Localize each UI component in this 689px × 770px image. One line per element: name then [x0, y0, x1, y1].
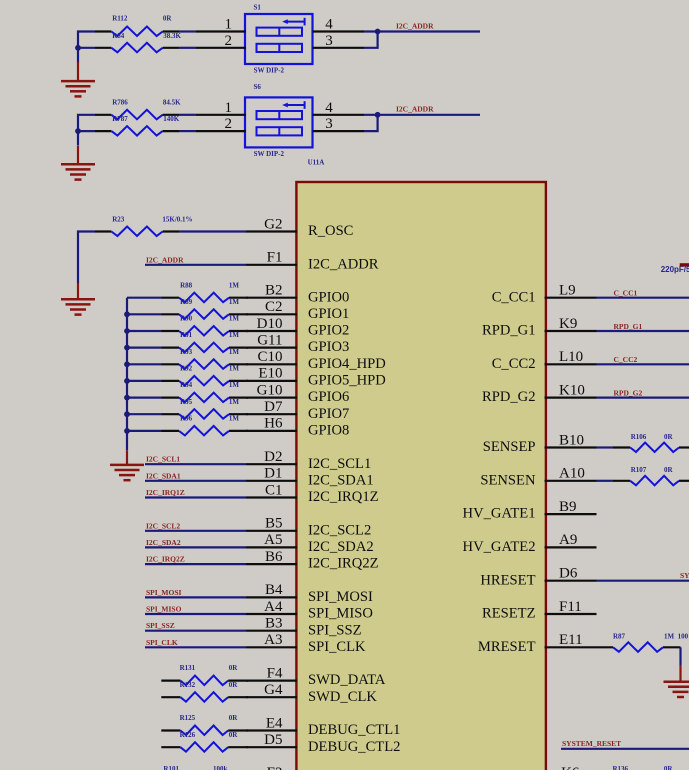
resistor R88 1M [127, 293, 248, 303]
svg-text:R126: R126 [180, 731, 196, 739]
svg-text:E10: E10 [258, 366, 282, 382]
label S1 ref [254, 4, 262, 12]
label R92 value 1M [229, 365, 240, 373]
svg-text:SPI_CLK: SPI_CLK [308, 639, 366, 655]
switch S6 SW DIP-2 [195, 97, 364, 147]
wire net I2C_SDA2 [145, 546, 246, 548]
wire [180, 47, 196, 49]
svg-text:0R: 0R [229, 731, 239, 739]
svg-text:R89: R89 [180, 298, 193, 306]
label R131 ref [180, 664, 196, 672]
label R125 ref [180, 714, 196, 722]
U11A pin A4 SPI_MISO [246, 599, 373, 622]
label R84 value 38.3K [163, 32, 181, 40]
wire S6 row2 left [78, 130, 95, 132]
svg-text:D5: D5 [264, 732, 282, 748]
wire net SPI_MISO [145, 613, 246, 615]
net label C_CC1 [614, 289, 638, 298]
svg-text:D2: D2 [264, 449, 282, 465]
wire net C_CC1 [597, 297, 689, 299]
net label RPD_G2 [614, 388, 643, 397]
svg-text:GPIO4_HPD: GPIO4_HPD [308, 356, 386, 372]
svg-text:GPIO6: GPIO6 [308, 389, 349, 405]
wire S1 row2 left [78, 47, 95, 49]
svg-text:I2C_IRQ2Z: I2C_IRQ2Z [146, 555, 185, 564]
svg-text:R23: R23 [112, 216, 125, 224]
svg-text:HV_GATE2: HV_GATE2 [463, 539, 536, 555]
label R126 ref [180, 731, 196, 739]
wire net I2C_SDA1 [145, 480, 246, 482]
svg-text:B5: B5 [265, 516, 283, 532]
junction [375, 29, 381, 35]
switch S1 SW DIP-2 [195, 14, 364, 64]
U11A pin F11 RESETZ [482, 599, 597, 622]
U11A pin F2 (partial) [267, 765, 283, 770]
label R106 ref [631, 433, 647, 441]
svg-text:RPD_G1: RPD_G1 [614, 322, 643, 331]
label 100 (partial) [678, 632, 689, 640]
svg-text:SENSEP: SENSEP [483, 439, 536, 455]
svg-text:1M: 1M [229, 381, 240, 389]
net label I2C_SCL2 [146, 521, 180, 530]
svg-text:R95: R95 [180, 398, 193, 406]
wire [597, 480, 613, 482]
resistor R95 1M [127, 409, 248, 419]
svg-text:R787: R787 [112, 115, 128, 123]
svg-text:S1: S1 [254, 4, 262, 12]
net label I2C_ADDR [396, 21, 434, 30]
svg-text:I2C_SDA1: I2C_SDA1 [146, 471, 181, 480]
svg-text:B6: B6 [265, 549, 283, 565]
svg-text:D1: D1 [264, 466, 282, 482]
resistor R131 0R [161, 676, 248, 686]
wire [597, 446, 613, 448]
svg-text:SW DIP-2: SW DIP-2 [254, 66, 285, 74]
wire net RPD_G2 [597, 397, 689, 399]
svg-text:D7: D7 [264, 399, 283, 415]
svg-text:R131: R131 [180, 664, 196, 672]
label R90 value 1M [229, 315, 240, 323]
U11A pin D2 I2C_SCL1 [246, 449, 371, 472]
wire net I2C_ADDR [364, 30, 480, 32]
svg-text:C1: C1 [265, 482, 283, 498]
svg-text:SPI_SSZ: SPI_SSZ [308, 622, 362, 638]
label R93 ref [180, 348, 193, 356]
label R787 value 140K [163, 115, 180, 123]
svg-text:HV_GATE1: HV_GATE1 [463, 506, 536, 522]
ground [61, 146, 95, 180]
label R94 ref [180, 381, 193, 389]
resistor R92 1M [127, 376, 248, 386]
svg-text:C_CC2: C_CC2 [614, 355, 638, 364]
U11A pin G11 GPIO3 [246, 332, 349, 355]
svg-text:G2: G2 [264, 216, 282, 232]
svg-text:84.5K: 84.5K [163, 99, 181, 107]
wire [180, 30, 196, 32]
svg-text:0R: 0R [229, 681, 239, 689]
U11A pin L9 C_CC1 [492, 283, 597, 306]
svg-text:1M: 1M [229, 298, 240, 306]
U11A pin D10 GPIO2 [246, 316, 349, 339]
label R107 value 0R [664, 466, 674, 474]
label R126 value [229, 731, 239, 739]
label R88 value 1M [229, 281, 240, 289]
wire [679, 647, 681, 665]
svg-text:R94: R94 [180, 381, 193, 389]
svg-text:HRESET: HRESET [480, 572, 535, 588]
svg-text:SYSTEM_RESET: SYSTEM_RESET [562, 739, 621, 748]
svg-text:E4: E4 [266, 715, 283, 731]
ground [664, 665, 689, 697]
svg-text:100k: 100k [213, 765, 228, 770]
svg-text:GPIO5_HPD: GPIO5_HPD [308, 373, 386, 389]
svg-text:E11: E11 [559, 632, 583, 648]
U11A pin C10 GPIO4_HPD [246, 349, 386, 372]
wire [364, 115, 378, 131]
label R786 ref [112, 99, 128, 107]
resistor R23 [95, 227, 180, 237]
U11A pin G10 GPIO6 [246, 382, 349, 405]
junction S6 left [75, 128, 81, 134]
label R84 ref [112, 32, 125, 40]
net label I2C_ADDR [146, 255, 184, 264]
resistor R93 1M [127, 359, 248, 369]
svg-text:4: 4 [325, 17, 333, 33]
U11A pin A3 SPI_CLK [246, 632, 366, 655]
U11A pin B10 SENSEP [483, 432, 597, 455]
svg-text:3: 3 [325, 116, 333, 132]
label R136 ref (partial) [613, 765, 629, 770]
svg-text:0R: 0R [664, 466, 674, 474]
resistor R89 1M [127, 309, 248, 319]
wire [180, 130, 196, 132]
net label I2C_SDA1 [146, 471, 181, 480]
svg-text:I2C_ADDR: I2C_ADDR [396, 21, 434, 30]
net label RPD_G1 [614, 322, 643, 331]
svg-text:SPI_SSZ: SPI_SSZ [146, 621, 175, 630]
label U11A ref [308, 158, 325, 166]
svg-text:K10: K10 [559, 382, 585, 398]
label R23 ref [112, 216, 125, 224]
svg-text:R106: R106 [631, 433, 647, 441]
resistor R84 [95, 43, 180, 53]
label R112 value 0R [163, 15, 173, 23]
junction [124, 311, 130, 317]
svg-text:A10: A10 [559, 466, 585, 482]
wire net SYSTEM_RESET (HRESET) [597, 580, 689, 582]
S1 pin 2 [225, 33, 233, 49]
net label SYSTEM_RESET [562, 739, 621, 748]
svg-text:R88: R88 [180, 281, 193, 289]
svg-text:GPIO8: GPIO8 [308, 423, 349, 439]
svg-text:SPI_MISO: SPI_MISO [146, 605, 182, 614]
svg-text:SENSEN: SENSEN [480, 472, 536, 488]
svg-text:100: 100 [678, 632, 689, 640]
svg-text:C_CC1: C_CC1 [614, 289, 638, 298]
resistor R112 [95, 27, 180, 37]
wire GPIO bus vertical [126, 298, 128, 451]
svg-text:1M: 1M [229, 415, 240, 423]
label R131 value [229, 664, 239, 672]
ground [110, 450, 144, 480]
U11A pin A10 SENSEN [480, 466, 596, 489]
resistor R126 0R [161, 742, 248, 752]
svg-text:B9: B9 [559, 499, 577, 515]
svg-text:3: 3 [325, 33, 333, 49]
net label I2C_SDA2 [146, 538, 181, 547]
svg-text:R107: R107 [631, 466, 647, 474]
net label C_CC2 [614, 355, 638, 364]
U11A pin H6 GPIO8 [246, 416, 349, 439]
U11A pin K10 RPD_G2 [482, 382, 597, 405]
U11A pin D5 DEBUG_CTL2 [246, 732, 400, 755]
U11A pin D7 GPIO7 [246, 399, 349, 422]
svg-text:R125: R125 [180, 714, 196, 722]
U11A pin A5 I2C_SDA2 [246, 532, 374, 555]
svg-text:I2C_IRQ2Z: I2C_IRQ2Z [308, 556, 379, 572]
svg-text:1M: 1M [664, 632, 675, 640]
svg-text:I2C_SCL2: I2C_SCL2 [308, 522, 371, 538]
label R786 value 84.5K [163, 99, 181, 107]
svg-text:R92: R92 [180, 365, 193, 373]
U11A pin F1 I2C_ADDR [246, 250, 379, 273]
svg-text:B3: B3 [265, 616, 283, 632]
S1 pin 1 [225, 17, 233, 33]
svg-text:GPIO1: GPIO1 [308, 306, 349, 322]
svg-text:1M: 1M [229, 315, 240, 323]
wire net I2C_SCL2 [145, 530, 246, 532]
wire [180, 114, 196, 116]
svg-text:F11: F11 [559, 599, 582, 615]
junction [124, 428, 130, 434]
label R87 ref [613, 632, 626, 640]
svg-text:RPD_G1: RPD_G1 [482, 323, 536, 339]
svg-text:C2: C2 [265, 299, 283, 315]
junction [375, 112, 381, 118]
svg-text:R101: R101 [163, 765, 179, 770]
svg-text:1: 1 [225, 100, 233, 116]
S6 pin 3 [325, 116, 333, 132]
label R132 value [229, 681, 239, 689]
wire [180, 230, 246, 232]
svg-text:MRESET: MRESET [478, 639, 536, 655]
svg-text:R93: R93 [180, 348, 193, 356]
junction [124, 395, 130, 401]
label R91 value 1M [229, 331, 240, 339]
label R88 ref [180, 281, 193, 289]
label R95 ref [180, 398, 193, 406]
svg-text:SPI_MOSI: SPI_MOSI [146, 588, 182, 597]
label S1 value SW DIP-2 [254, 66, 285, 74]
label R95 value 1M [229, 398, 240, 406]
svg-text:R112: R112 [112, 15, 128, 23]
net label I2C_IRQ1Z [146, 488, 185, 497]
net label SPI_CLK [146, 638, 178, 647]
U11A pin B9 HV_GATE1 [463, 499, 597, 522]
svg-text:1M: 1M [229, 348, 240, 356]
resistor R125 0R [161, 726, 248, 736]
svg-text:I2C_ADDR: I2C_ADDR [396, 105, 434, 114]
svg-text:F2: F2 [267, 765, 283, 770]
label R132 ref [180, 681, 196, 689]
label R93 value 1M [229, 348, 240, 356]
label R90 ref [180, 315, 193, 323]
svg-text:0R: 0R [229, 714, 239, 722]
junction S1 left [75, 45, 81, 51]
svg-text:GPIO7: GPIO7 [308, 406, 349, 422]
U11A pin L10 C_CC2 [492, 349, 597, 372]
svg-text:0R: 0R [163, 15, 173, 23]
junction [124, 328, 130, 334]
svg-text:R96: R96 [180, 415, 193, 423]
ground [61, 283, 95, 315]
svg-text:DEBUG_CTL1: DEBUG_CTL1 [308, 722, 400, 738]
U11A pin F4 SWD_DATA [246, 665, 386, 688]
svg-text:L9: L9 [559, 283, 576, 299]
svg-text:140K: 140K [163, 115, 180, 123]
svg-text:0R: 0R [664, 765, 674, 770]
svg-text:U11A: U11A [308, 158, 325, 166]
resistor R96 1M [127, 426, 248, 436]
svg-text:D6: D6 [559, 566, 578, 582]
svg-text:1M: 1M [229, 331, 240, 339]
net label SYSTEM_RESET (partial) [680, 571, 689, 580]
svg-text:R91: R91 [180, 331, 193, 339]
op-amp U11A body [296, 182, 546, 770]
svg-text:SYSTEM_RESET: SYSTEM_RESET [680, 571, 689, 580]
label R91 ref [180, 331, 193, 339]
svg-text:R90: R90 [180, 315, 193, 323]
net label SPI_MISO [146, 605, 182, 614]
svg-text:I2C_SCL2: I2C_SCL2 [146, 521, 180, 530]
wire left vertical S6 block [78, 115, 95, 146]
capacitor plate (partial) [680, 263, 689, 266]
svg-text:G4: G4 [264, 682, 283, 698]
S6 pin 1 [225, 100, 233, 116]
svg-text:A4: A4 [264, 599, 283, 615]
U11A pin E11 MRESET [478, 632, 597, 655]
wire net C_CC2 [597, 363, 689, 365]
svg-text:B4: B4 [265, 582, 283, 598]
wire net SPI_MOSI [145, 596, 246, 598]
svg-text:I2C_IRQ1Z: I2C_IRQ1Z [146, 488, 185, 497]
U11A pin D1 I2C_SDA1 [246, 466, 374, 489]
svg-text:SW DIP-2: SW DIP-2 [254, 150, 285, 158]
label R101 value 100k [213, 765, 228, 770]
svg-text:1M: 1M [229, 281, 240, 289]
U11A pin B5 I2C_SCL2 [246, 516, 371, 539]
label R89 ref [180, 298, 193, 306]
U11A pin A9 HV_GATE2 [463, 532, 597, 555]
svg-text:I2C_SCL1: I2C_SCL1 [146, 455, 180, 464]
svg-text:1M: 1M [229, 365, 240, 373]
U11A pin K6 (partial) [561, 765, 580, 770]
svg-text:38.3K: 38.3K [163, 32, 181, 40]
svg-text:I2C_ADDR: I2C_ADDR [308, 256, 379, 272]
U11A pin G2 R_OSC [246, 216, 353, 239]
label S6 ref [254, 83, 262, 91]
svg-text:H6: H6 [264, 416, 283, 432]
svg-text:I2C_SCL1: I2C_SCL1 [308, 456, 371, 472]
U11A pin C2 GPIO1 [246, 299, 349, 322]
U11A pin G4 SWD_CLK [246, 682, 377, 705]
label R94 value 1M [229, 381, 240, 389]
label R136 value 0R (partial) [664, 765, 674, 770]
svg-text:I2C_IRQ1Z: I2C_IRQ1Z [308, 489, 379, 505]
svg-text:F4: F4 [267, 665, 283, 681]
svg-text:C_CC2: C_CC2 [492, 356, 536, 372]
label R92 ref [180, 365, 193, 373]
svg-text:K6: K6 [561, 765, 580, 770]
junction [124, 378, 130, 384]
resistor R87 1M [597, 642, 681, 652]
S6 pin 2 [225, 116, 233, 132]
U11A pin D6 HRESET [480, 566, 596, 589]
svg-text:A5: A5 [264, 532, 282, 548]
U11A pin E10 GPIO5_HPD [246, 366, 386, 389]
wire [364, 32, 378, 48]
net label SPI_MOSI [146, 588, 182, 597]
svg-text:F1: F1 [267, 250, 283, 266]
svg-text:K9: K9 [559, 316, 577, 332]
svg-text:RPD_G2: RPD_G2 [614, 388, 643, 397]
svg-text:SWD_DATA: SWD_DATA [308, 672, 386, 688]
U11A pin B6 I2C_IRQ2Z [246, 549, 379, 572]
svg-text:I2C_ADDR: I2C_ADDR [146, 255, 184, 264]
resistor R106 0R [612, 443, 689, 453]
svg-text:B10: B10 [559, 432, 584, 448]
label R125 value [229, 714, 239, 722]
junction [124, 411, 130, 417]
svg-text:G10: G10 [257, 382, 283, 398]
svg-text:RPD_G2: RPD_G2 [482, 389, 536, 405]
svg-text:1: 1 [225, 17, 233, 33]
svg-text:I2C_SDA2: I2C_SDA2 [146, 538, 181, 547]
ground [61, 62, 95, 96]
net label SPI_SSZ [146, 621, 175, 630]
svg-text:1M: 1M [229, 398, 240, 406]
svg-text:2: 2 [225, 116, 233, 132]
svg-text:SPI_MOSI: SPI_MOSI [308, 589, 373, 605]
svg-text:A9: A9 [559, 532, 577, 548]
wire left vertical S1 block [78, 32, 95, 63]
wire [78, 232, 95, 284]
wire net RPD_G1 [597, 330, 689, 332]
resistor R90 1M [127, 326, 248, 336]
svg-text:I2C_SDA1: I2C_SDA1 [308, 472, 374, 488]
label R106 value 0R [664, 433, 674, 441]
U11A pin K9 RPD_G1 [482, 316, 597, 339]
label R101 ref [163, 765, 179, 770]
svg-text:D10: D10 [257, 316, 283, 332]
wire net SYSTEM_RESET [561, 748, 689, 750]
resistor R107 0R [612, 476, 689, 486]
svg-text:S6: S6 [254, 83, 262, 91]
resistor R786 [95, 110, 180, 120]
wire net I2C_ADDR [364, 114, 480, 116]
net label I2C_ADDR [396, 105, 434, 114]
wire net I2C_SCL1 [145, 463, 246, 465]
S1 pin 4 [325, 17, 333, 33]
wire net I2C_IRQ1Z [145, 496, 246, 498]
svg-text:R786: R786 [112, 99, 128, 107]
label R87 value 1M [664, 632, 675, 640]
label R107 ref [631, 466, 647, 474]
svg-text:C10: C10 [257, 349, 282, 365]
U11A pin B2 GPIO0 [246, 283, 349, 306]
svg-text:R132: R132 [180, 681, 196, 689]
wire net I2C_IRQ2Z [145, 563, 246, 565]
